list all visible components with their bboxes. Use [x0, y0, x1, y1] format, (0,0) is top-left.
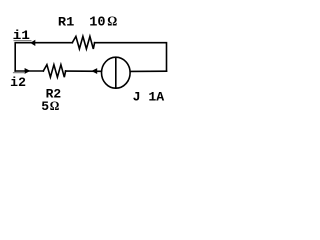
- wire R2 to source: [66, 70, 102, 72]
- svg-text:i1: i1: [13, 28, 31, 43]
- svg-text:J 1A: J 1A: [133, 90, 165, 105]
- source arrowhead: [91, 68, 97, 74]
- resistor R2: [43, 65, 65, 78]
- current source bar: [115, 57, 117, 88]
- current source J circle: [102, 57, 131, 88]
- i1 arrowhead: [30, 40, 35, 46]
- wire top left segment: [15, 43, 72, 71]
- i2 arrowhead: [25, 68, 31, 74]
- resistor R1: [72, 36, 94, 49]
- svg-text:5: 5: [41, 99, 49, 114]
- i2 annotation line: [13, 72, 24, 74]
- svg-text:Ω: Ω: [107, 14, 117, 29]
- i1 annotation line: [14, 40, 32, 42]
- wire top right segment: [95, 43, 167, 71]
- wire source to right: [131, 70, 167, 72]
- svg-text:Ω: Ω: [50, 99, 60, 113]
- wire bottom left: [15, 70, 43, 72]
- svg-text:10: 10: [89, 16, 105, 31]
- svg-text:i2: i2: [10, 75, 26, 90]
- svg-text:R1: R1: [58, 15, 75, 30]
